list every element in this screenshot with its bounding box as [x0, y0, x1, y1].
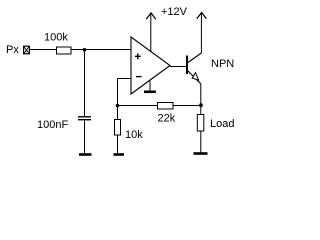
op-amp plus marking — [135, 53, 141, 59]
wire junction down to capacitor — [84, 50, 86, 118]
power arrow +12V (left) — [146, 13, 156, 19]
resistor R 10k — [115, 120, 121, 136]
wire Load to ground — [200, 131, 202, 153]
wire 10k to ground — [117, 135, 119, 154]
transistor emitter arrowhead (open) — [192, 73, 198, 80]
ground at op-amp V- — [144, 91, 156, 94]
svg-text:100k: 100k — [44, 32, 68, 44]
wire terminal to R 100k — [30, 49, 56, 51]
op-amp U1 triangle — [131, 37, 170, 94]
resistor R 22k — [158, 103, 174, 110]
power arrow +12V (right) — [197, 13, 207, 19]
emitter wire down to node — [200, 84, 202, 106]
node feedback junction — [116, 104, 120, 108]
resistor R 100k — [57, 47, 72, 54]
wire capacitor to ground — [84, 120, 86, 154]
op-amp V+ pin wire — [150, 13, 152, 52]
svg-text:NPN: NPN — [211, 58, 234, 70]
transistor emitter diagonal — [188, 71, 201, 84]
op-amp V- pin wire — [149, 81, 151, 92]
wire node to Load — [200, 106, 202, 115]
wire R 100k to op-amp + input — [71, 49, 131, 51]
ground under 10k — [114, 153, 125, 156]
wire R 22k to emitter node — [173, 105, 201, 107]
ground under capacitor — [79, 153, 92, 156]
ground under Load — [194, 152, 208, 155]
wire junction to R 22k — [118, 105, 158, 107]
collector wire to +12V arrow — [200, 13, 202, 54]
svg-text:10k: 10k — [125, 129, 143, 141]
svg-text:22k: 22k — [158, 113, 176, 125]
op-amp minus marking — [136, 76, 142, 78]
svg-text:Load: Load — [210, 118, 234, 130]
resistor R Load — [197, 115, 204, 132]
wire - input to feedback — [118, 78, 132, 80]
node junction at input — [83, 48, 87, 52]
svg-text:100nF: 100nF — [37, 119, 68, 131]
node emitter junction — [199, 103, 203, 107]
wire feedback vertical — [117, 79, 119, 106]
terminal Px (box with X) — [24, 46, 30, 54]
svg-text:Px: Px — [6, 44, 19, 56]
svg-text:+12V: +12V — [161, 6, 188, 18]
wire op-amp output to transistor base — [170, 66, 187, 68]
transistor Q1 base bar — [186, 56, 188, 75]
wire 10k top — [117, 106, 119, 120]
capacitor C 100nF — [78, 117, 91, 120]
transistor collector diagonal — [188, 53, 201, 63]
